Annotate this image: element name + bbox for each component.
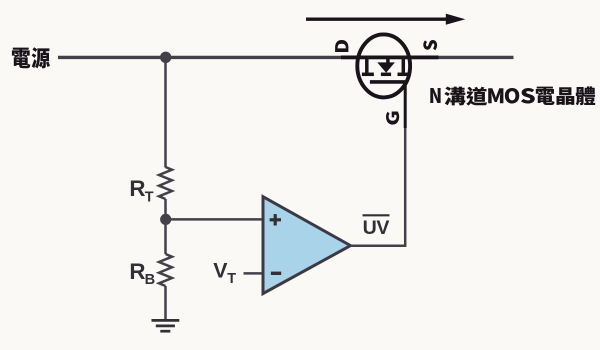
MOSFET channel bar left (drain contact): [362, 73, 374, 77]
svg-text:UV: UV: [363, 217, 390, 239]
MOSFET body diode arrow: [377, 62, 395, 72]
plus input symbol: [270, 214, 281, 225]
wire RB to ground: [164, 286, 167, 320]
pin label G: [386, 111, 399, 124]
MOSFET gate bar: [370, 80, 405, 84]
wire VT to op-amp minus input: [244, 272, 264, 275]
ground symbol: [152, 320, 180, 331]
wire rail junction down to RT: [164, 58, 167, 168]
UV overline: [363, 214, 390, 216]
power rail wire: [58, 56, 514, 59]
pin label S: [423, 40, 437, 50]
svg-text:V: V: [213, 259, 228, 283]
label 電源 (power supply): [12, 48, 30, 69]
svg-text:T: T: [145, 190, 154, 206]
node A dot (divider midpoint): [160, 214, 171, 225]
wire RT to RB: [164, 199, 167, 254]
MOSFET channel bar middle (body contact): [381, 73, 391, 77]
svg-text:B: B: [145, 272, 156, 288]
output wire from U1 to gate node: [351, 126, 406, 246]
current direction arrow: [306, 18, 447, 21]
wire node A to op-amp plus input: [166, 218, 264, 221]
junction dot on rail: [160, 52, 171, 63]
MOSFET gate lead down: [404, 82, 407, 128]
svg-text:R: R: [129, 176, 145, 201]
transistor Q1 N-MOSFET body circle: [357, 34, 410, 97]
op-amp comparator U1: [263, 197, 351, 294]
minus input symbol: [271, 272, 281, 275]
resistor RB zigzag: [159, 254, 172, 286]
MOSFET drain drop lead: [365, 58, 369, 73]
label N溝道MOS電晶體 (N-channel MOS transistor): [430, 88, 440, 103]
MOSFET drain-source rail overlay: [341, 56, 439, 60]
MOSFET channel bar right (source contact): [398, 73, 410, 77]
resistor RT zigzag: [159, 167, 172, 199]
svg-text:R: R: [129, 259, 145, 284]
MOSFET source drop lead: [402, 58, 406, 73]
svg-text:T: T: [227, 271, 236, 287]
pin label D: [335, 40, 348, 52]
MOSFET body drop lead: [386, 58, 390, 64]
